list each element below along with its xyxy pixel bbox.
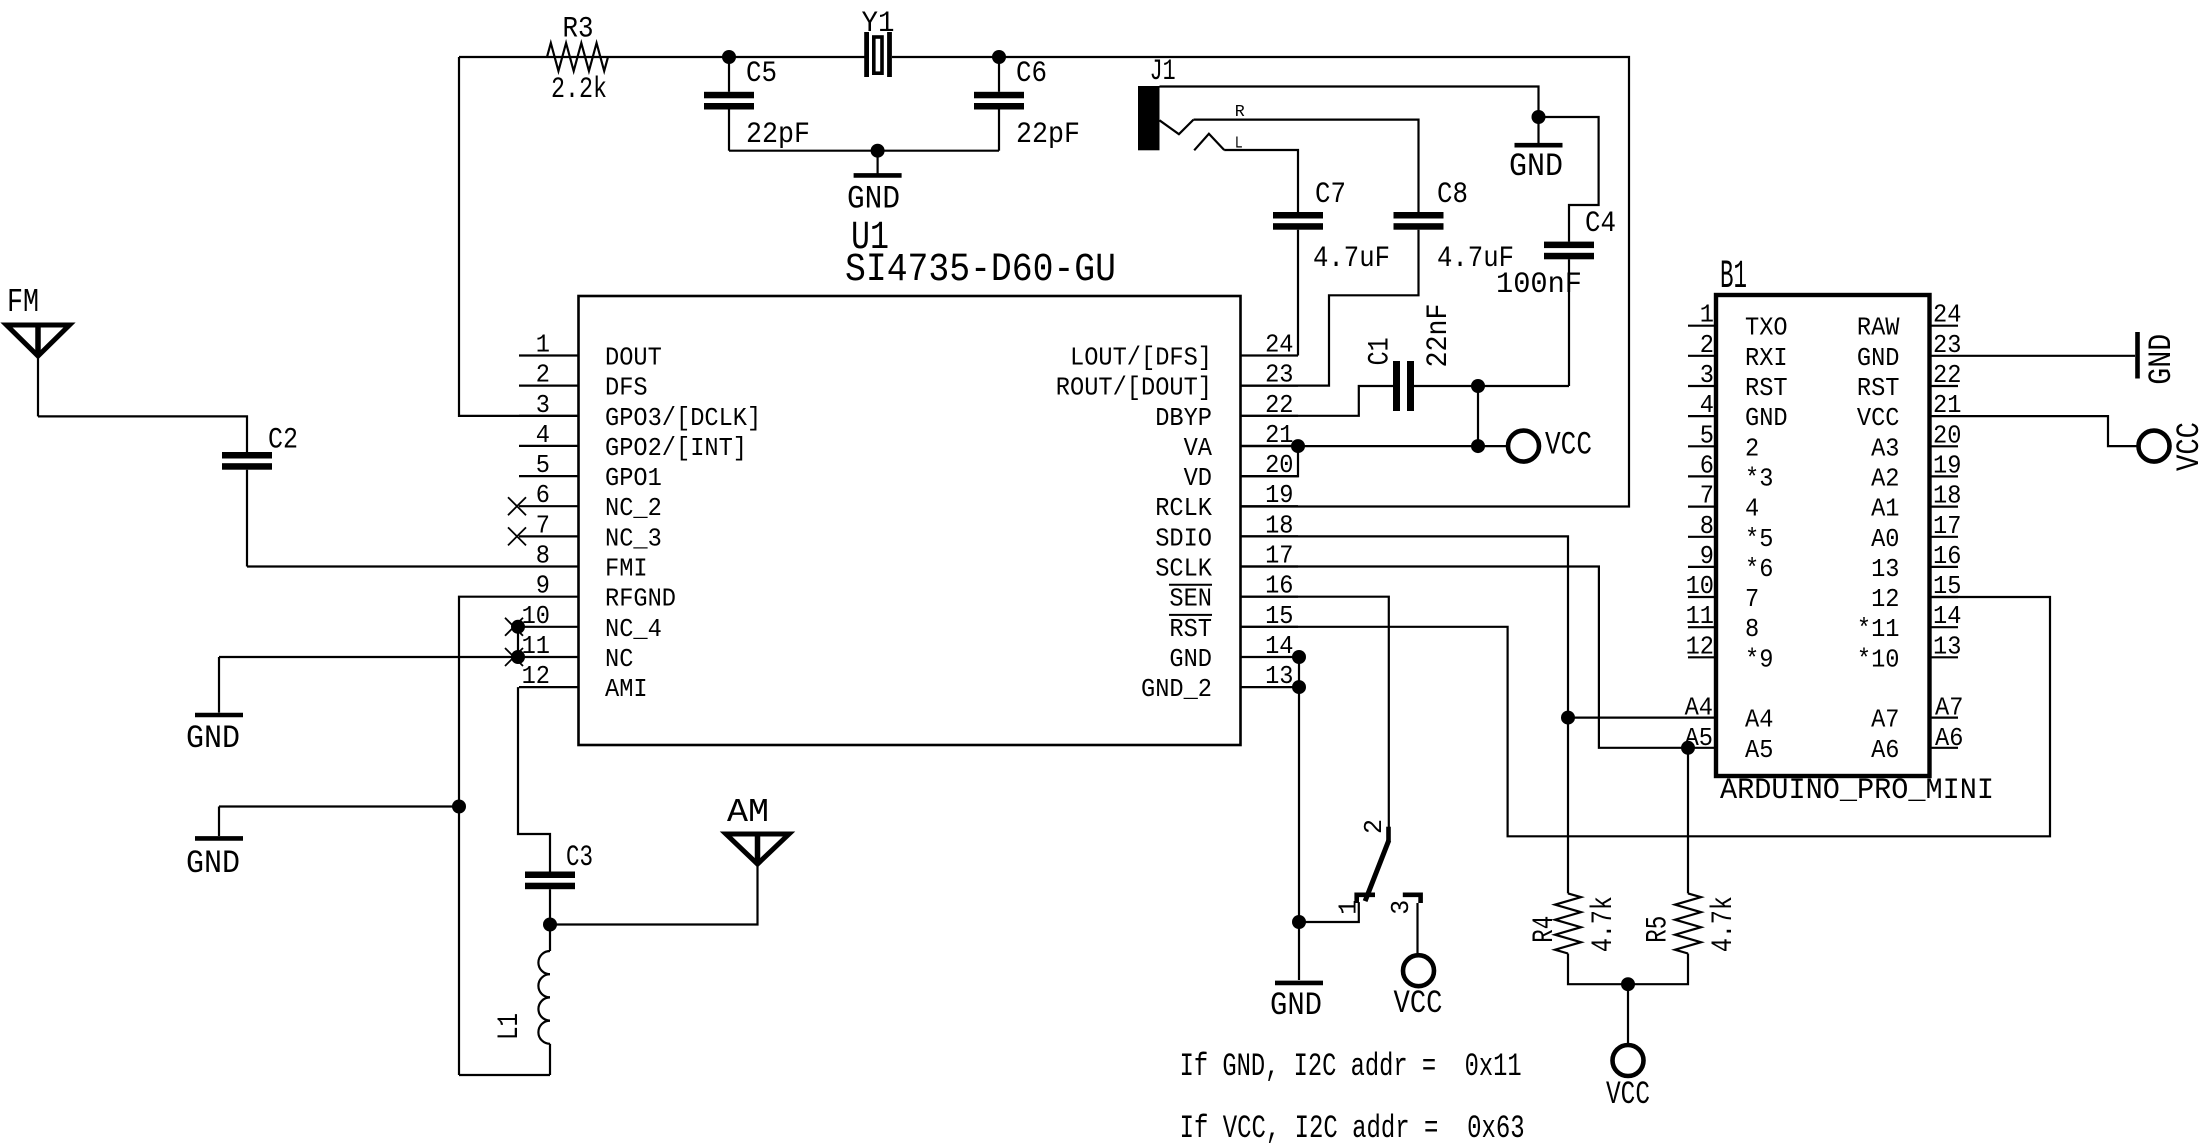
node VA junction (1291, 439, 1305, 453)
svg-text:If GND, I2C addr = 0x11: If GND, I2C addr = 0x11 (1180, 1048, 1522, 1085)
svg-text:VCC: VCC (2171, 422, 2208, 471)
label Y1 (862, 7, 895, 41)
label FM (7, 284, 39, 321)
wire C6 bottom to GND junction (878, 150, 999, 152)
svg-text:RXI: RXI (1745, 343, 1788, 373)
wire crystal net GPO3 side (R3 left to U1 pin 3) (459, 57, 608, 416)
svg-text:21: 21 (1933, 390, 1961, 420)
no-connect X pin 7 (508, 527, 526, 545)
svg-text:22: 22 (1933, 360, 1961, 390)
svg-text:GND: GND (186, 720, 240, 757)
node GND pin 13 (1292, 680, 1306, 694)
capacitor C4 (1544, 242, 1594, 386)
svg-text:SEN: SEN (1169, 584, 1212, 614)
wire junction down to R4 (1567, 718, 1569, 894)
svg-text:DOUT: DOUT (605, 343, 662, 373)
wire L1 bottom to RFGND riser (459, 1074, 550, 1076)
capacitor C1 (vertical plates) (1393, 361, 1414, 411)
svg-text:C6: C6 (1016, 57, 1047, 91)
wire GND pins 14/13 down (1298, 657, 1300, 980)
svg-text:J1: J1 (1150, 55, 1176, 89)
wire R3 to crystal (608, 56, 866, 58)
svg-text:23: 23 (1933, 330, 1961, 360)
label 22pF C6 (1016, 118, 1080, 152)
IC U1 pin numbers (522, 330, 1294, 692)
label GND left lower (186, 845, 240, 882)
label GND left upper (186, 720, 240, 757)
svg-text:8: 8 (1700, 511, 1714, 541)
wire RFGND down left side (459, 597, 519, 1075)
svg-text:14: 14 (1933, 601, 1961, 631)
ground at J1 (1515, 117, 1563, 145)
node C3/L1/AM junction (543, 918, 557, 932)
label C5 (746, 57, 777, 91)
power VCC near U1 (1508, 431, 1539, 462)
label 22nF rotated (1422, 304, 1456, 368)
no-connect X pin 11 (505, 648, 523, 666)
label 2.2k (551, 73, 607, 107)
svg-text:9: 9 (1700, 541, 1714, 571)
node switch GND junction (1292, 915, 1306, 929)
svg-text:SI4735-D60-GU: SI4735-D60-GU (845, 248, 1116, 293)
svg-text:100nF: 100nF (1496, 268, 1582, 302)
svg-text:A5: A5 (1685, 723, 1713, 753)
connector J1 L contact (1194, 134, 1224, 151)
svg-text:8: 8 (536, 541, 550, 571)
label R3 (563, 13, 594, 47)
svg-text:AM: AM (727, 794, 769, 831)
label 4.7k R4 rotated (1587, 896, 1621, 952)
svg-text:10: 10 (522, 601, 550, 631)
wire junction down to VCC line (1477, 386, 1479, 446)
label 4.7uF C8 (1437, 242, 1514, 276)
connector J1 R contact (1160, 120, 1194, 135)
svg-text:VD: VD (1184, 463, 1212, 493)
wire VA junction down to VD pin 20 (1241, 446, 1299, 476)
svg-text:13: 13 (1871, 554, 1899, 584)
svg-text:7: 7 (536, 510, 550, 540)
ground below switch (1275, 981, 1323, 986)
svg-text:VCC: VCC (1394, 985, 1443, 1022)
label J1 (1150, 55, 1176, 89)
label C3 (566, 841, 593, 875)
label VCC below resistors (1606, 1076, 1650, 1113)
svg-text:C8: C8 (1437, 178, 1468, 212)
svg-text:10: 10 (1686, 571, 1714, 601)
label B1 (1720, 255, 1747, 300)
label VCC B1 rotated (2171, 422, 2208, 471)
switch pin 3 terminal (1403, 895, 1421, 903)
wire junction to C4 bottom (1478, 385, 1569, 387)
wire FM to C2 (38, 416, 247, 452)
svg-text:NC_3: NC_3 (605, 523, 662, 553)
svg-text:TXO: TXO (1745, 313, 1788, 343)
IC B1 pin names (1745, 313, 1900, 765)
wire RST U1 to B1 (1241, 597, 2051, 836)
resistor R3 (547, 43, 608, 71)
wire C3 to L1 junction (549, 889, 551, 924)
IC B1 pin stubs (1688, 326, 1958, 748)
svg-text:RCLK: RCLK (1155, 493, 1212, 523)
wire J1 GND junction to C4 top (1539, 117, 1599, 242)
svg-text:1: 1 (536, 330, 550, 360)
svg-text:L1: L1 (493, 1013, 527, 1040)
node NC_4 pin 10 (511, 620, 525, 634)
capacitor C8 (1394, 212, 1444, 230)
node GND junction below Y1 (871, 144, 885, 158)
svg-text:*10: *10 (1857, 644, 1900, 674)
wire C1 to VCC junction (1414, 385, 1478, 387)
svg-text:23: 23 (1265, 360, 1293, 390)
label C1 rotated (1364, 337, 1398, 365)
svg-text:GND: GND (1270, 987, 1322, 1024)
svg-text:11: 11 (522, 631, 550, 661)
svg-text:8: 8 (1745, 614, 1759, 644)
svg-text:22pF: 22pF (746, 118, 810, 152)
svg-text:R4: R4 (1528, 916, 1562, 943)
svg-text:AMI: AMI (605, 674, 648, 704)
svg-text:A1: A1 (1871, 494, 1899, 524)
svg-text:If VCC, I2C addr = 0x63: If VCC, I2C addr = 0x63 (1180, 1110, 1525, 1146)
svg-text:RST: RST (1745, 373, 1788, 403)
label 100nF C4 (1496, 268, 1582, 302)
svg-text:2: 2 (536, 360, 550, 390)
svg-text:9: 9 (536, 571, 550, 601)
svg-text:*9: *9 (1745, 644, 1773, 674)
svg-text:NC_4: NC_4 (605, 614, 662, 644)
svg-text:VCC: VCC (1857, 403, 1900, 433)
node R4/R5 junction (1621, 977, 1635, 991)
svg-text:4.7k: 4.7k (1707, 896, 1741, 952)
svg-text:C7: C7 (1315, 178, 1346, 212)
svg-text:NC: NC (605, 644, 633, 674)
capacitor C2 (222, 452, 272, 567)
inductor L1 (538, 925, 550, 1076)
svg-text:C3: C3 (566, 841, 593, 875)
wire VA pin 21 to VCC (1241, 445, 1509, 447)
svg-text:C5: C5 (746, 57, 777, 91)
svg-text:RFGND: RFGND (605, 584, 676, 614)
connector J1 body (1138, 86, 1160, 150)
switch pin 1 terminal (1357, 895, 1375, 903)
IC U1 pin stubs (519, 356, 1298, 688)
svg-text:DBYP: DBYP (1155, 403, 1212, 433)
wire switch pin3 to VCC (1416, 903, 1418, 955)
wire junction to AM antenna (550, 864, 758, 925)
crystal Y1 (867, 32, 890, 77)
node GND pin 14 (1292, 650, 1306, 664)
svg-text:4: 4 (1745, 494, 1759, 524)
svg-text:Y1: Y1 (862, 7, 895, 41)
antenna FM (7, 325, 70, 416)
svg-text:22pF: 22pF (1016, 118, 1080, 152)
svg-text:R3: R3 (563, 13, 594, 47)
node junction at C5 (722, 50, 736, 64)
capacitor C7 (1273, 212, 1323, 356)
svg-text:7: 7 (1700, 481, 1714, 511)
svg-text:12: 12 (1871, 584, 1899, 614)
svg-text:A7: A7 (1871, 705, 1899, 735)
svg-text:R5: R5 (1642, 916, 1676, 943)
svg-text:GND: GND (186, 845, 240, 882)
pin label L (1235, 135, 1243, 154)
overline SEN (1169, 584, 1212, 586)
wire C5 bottom to GND junction (729, 150, 878, 152)
wire B1 VCC pin 21 (1958, 416, 2138, 446)
pin label 1 rotated (1334, 900, 1364, 915)
svg-text:22nF: 22nF (1422, 304, 1456, 368)
svg-text:ARDUINO_PRO_MINI: ARDUINO_PRO_MINI (1720, 774, 1994, 808)
svg-text:3: 3 (536, 390, 550, 420)
svg-text:5: 5 (1700, 420, 1714, 450)
svg-text:SDIO: SDIO (1155, 523, 1212, 553)
label C6 (1016, 57, 1047, 91)
label R5 rotated (1642, 916, 1676, 943)
svg-text:A7: A7 (1935, 693, 1963, 723)
wire SCLK to A5/R5 (1241, 567, 1689, 748)
switch arm (1365, 840, 1389, 901)
switch pin 2 terminal (1386, 827, 1391, 842)
label C7 (1315, 178, 1346, 212)
svg-text:RAW: RAW (1857, 313, 1900, 343)
label R4 rotated (1528, 916, 1562, 943)
ground left lower (195, 807, 243, 839)
svg-text:A0: A0 (1871, 524, 1899, 554)
capacitor C6 (974, 57, 1024, 151)
svg-text:GPO1: GPO1 (605, 463, 662, 493)
label AM (727, 794, 769, 831)
node J1 GND junction (1532, 110, 1546, 124)
power VCC switch (1403, 955, 1434, 986)
wire junction to VCC bottom (1627, 984, 1629, 1045)
svg-text:A4: A4 (1745, 705, 1773, 735)
ground left upper (195, 657, 243, 715)
wire junction down to R5 (1687, 748, 1689, 894)
svg-text:4.7k: 4.7k (1587, 896, 1621, 952)
label 22pF C5 (746, 118, 810, 152)
svg-text:20: 20 (1933, 420, 1961, 450)
svg-text:A6: A6 (1935, 723, 1963, 753)
node SCLK/A5/R5 junction (1681, 741, 1695, 755)
no-connect X pin 6 (508, 497, 526, 515)
node RFGND/GND junction (452, 800, 466, 814)
pin label 3 rotated (1386, 900, 1416, 915)
svg-text:7: 7 (1745, 584, 1759, 614)
svg-text:C1: C1 (1364, 337, 1398, 365)
svg-text:2: 2 (1745, 433, 1759, 463)
svg-text:2: 2 (1700, 330, 1714, 360)
svg-text:RST: RST (1169, 614, 1212, 644)
svg-text:11: 11 (1686, 601, 1714, 631)
svg-text:4.7uF: 4.7uF (1313, 242, 1390, 276)
svg-text:A4: A4 (1685, 693, 1713, 723)
IC B1 pin numbers (1685, 300, 1964, 753)
wire L channel to C7 (1224, 150, 1298, 212)
svg-text:*3: *3 (1745, 463, 1773, 493)
wire AMI to C3 (518, 687, 550, 871)
wire R channel to C8 (1194, 120, 1419, 212)
svg-text:GND: GND (847, 181, 900, 218)
no-connect X pin 10 (505, 618, 523, 636)
svg-text:SCLK: SCLK (1155, 554, 1212, 584)
svg-text:3: 3 (1386, 900, 1416, 915)
wire J1 sleeve to GND corner (1160, 87, 1539, 118)
label C4 (1585, 207, 1616, 241)
svg-text:DFS: DFS (605, 373, 648, 403)
svg-text:GND: GND (2143, 334, 2180, 385)
svg-text:GND: GND (1509, 148, 1563, 185)
svg-text:6: 6 (536, 480, 550, 510)
svg-text:FMI: FMI (605, 554, 648, 584)
IC B1 body (1716, 295, 1930, 776)
svg-text:GND_2: GND_2 (1141, 674, 1212, 704)
svg-text:VCC: VCC (1545, 426, 1592, 463)
ground B1 right (rotated) (2135, 332, 2140, 379)
label VCC switch (1394, 985, 1443, 1022)
label SI4735-D60-GU (845, 248, 1116, 293)
node junction at C6 (992, 50, 1006, 64)
label ARDUINO_PRO_MINI (1720, 774, 1994, 808)
svg-text:6: 6 (1700, 450, 1714, 480)
svg-text:12: 12 (1686, 631, 1714, 661)
svg-text:4: 4 (536, 420, 550, 450)
svg-text:14: 14 (1265, 631, 1293, 661)
label 4.7k R5 rotated (1707, 896, 1741, 952)
power VCC B1 right (2139, 431, 2170, 462)
svg-text:2: 2 (1359, 819, 1389, 834)
capacitor C5 (704, 57, 754, 151)
svg-text:24: 24 (1933, 300, 1961, 330)
svg-text:*5: *5 (1745, 524, 1773, 554)
pin label 2 rotated (1359, 819, 1389, 834)
note I2C addr line 2 (1180, 1110, 1525, 1146)
IC U1 body (579, 296, 1241, 745)
svg-text:GND: GND (1857, 343, 1900, 373)
label C8 (1437, 178, 1468, 212)
svg-text:GPO2/[INT]: GPO2/[INT] (605, 433, 747, 463)
wire crystal net to RCLK (top/right/bottom run) (999, 57, 1629, 507)
svg-text:13: 13 (1933, 631, 1961, 661)
svg-text:FM: FM (7, 284, 39, 321)
svg-text:GND: GND (1745, 403, 1788, 433)
svg-text:GND: GND (1169, 644, 1212, 674)
label L1 rotated (493, 1013, 527, 1040)
svg-text:B1: B1 (1720, 255, 1747, 300)
svg-text:21: 21 (1265, 420, 1293, 450)
label GND crystal (847, 181, 900, 218)
svg-text:18: 18 (1933, 481, 1961, 511)
label VCC near U1 (1545, 426, 1592, 463)
wire crystal to C6 junction (892, 56, 999, 58)
svg-text:24: 24 (1265, 330, 1293, 360)
antenna AM (726, 834, 789, 864)
svg-text:5: 5 (536, 450, 550, 480)
wire DBYP to C1 (1241, 386, 1394, 416)
label GND J1 (1509, 148, 1563, 185)
label 4.7uF C7 (1313, 242, 1390, 276)
svg-text:VA: VA (1184, 433, 1213, 463)
label GND B1 rotated (2143, 334, 2180, 385)
svg-text:*6: *6 (1745, 554, 1773, 584)
svg-text:LOUT/[DFS]: LOUT/[DFS] (1070, 343, 1212, 373)
resistor R5 (1675, 893, 1701, 953)
svg-text:13: 13 (1265, 661, 1293, 691)
svg-text:ROUT/[DOUT]: ROUT/[DOUT] (1056, 373, 1212, 403)
wire R5 bottom to junction (1628, 954, 1688, 985)
svg-text:C2: C2 (268, 424, 298, 458)
svg-text:19: 19 (1265, 480, 1293, 510)
svg-text:17: 17 (1933, 511, 1961, 541)
note I2C addr line 1 (1180, 1048, 1522, 1085)
svg-text:20: 20 (1265, 450, 1293, 480)
wire junction to GND 2 (219, 805, 459, 807)
svg-text:22: 22 (1265, 390, 1293, 420)
svg-text:A2: A2 (1871, 463, 1899, 493)
svg-text:19: 19 (1933, 450, 1961, 480)
pin label R (1235, 103, 1245, 122)
node SDIO/A4/R4 junction (1561, 711, 1575, 725)
svg-text:4: 4 (1700, 390, 1714, 420)
svg-text:2.2k: 2.2k (551, 73, 607, 107)
wire NC pin 11 to GND (219, 656, 519, 658)
node VCC junction (1471, 439, 1485, 453)
svg-text:15: 15 (1933, 571, 1961, 601)
wire R4 bottom to junction (1568, 954, 1628, 985)
svg-text:A5: A5 (1745, 735, 1773, 765)
label U1 (851, 216, 889, 261)
wire switch pin1 to GND net (1299, 902, 1359, 922)
svg-text:16: 16 (1933, 541, 1961, 571)
svg-text:RST: RST (1857, 373, 1900, 403)
IC U1 pin names (605, 343, 1212, 705)
svg-text:3: 3 (1700, 360, 1714, 390)
wire C8 to ROUT pin 23 (1241, 230, 1419, 386)
node NC pin 11 (511, 650, 525, 664)
svg-text:GPO3/[DCLK]: GPO3/[DCLK] (605, 403, 761, 433)
resistor R4 (1555, 893, 1581, 953)
svg-text:12: 12 (522, 661, 550, 691)
wire pin10 to pin11 (517, 627, 519, 657)
svg-text:C4: C4 (1585, 207, 1616, 241)
wire C2 to FMI pin 8 (247, 565, 519, 567)
svg-text:*11: *11 (1857, 614, 1900, 644)
wire SDIO to A4/R4 (1241, 536, 1689, 717)
capacitor C3 (525, 872, 575, 890)
power VCC below resistors (1613, 1045, 1644, 1076)
svg-text:NC_2: NC_2 (605, 493, 662, 523)
label C2 (268, 424, 298, 458)
node junction C1/C4 (1471, 379, 1485, 393)
ground below crystal caps (854, 151, 902, 176)
svg-text:A3: A3 (1871, 433, 1899, 463)
wire B1 GND pin 23 (1958, 355, 2135, 357)
svg-text:A6: A6 (1871, 735, 1899, 765)
overline RST (1169, 614, 1212, 616)
svg-text:VCC: VCC (1606, 1076, 1650, 1113)
label GND switch (1270, 987, 1322, 1024)
svg-text:1: 1 (1700, 300, 1714, 330)
wire SEN to switch (1241, 597, 1389, 827)
